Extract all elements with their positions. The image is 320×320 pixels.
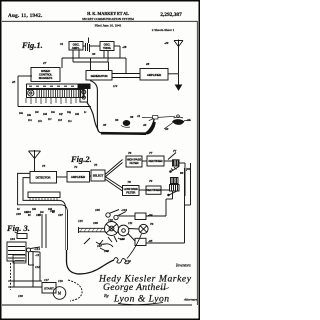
svg-text:-28: -28 (122, 45, 127, 49)
svg-text:108: 108 (104, 249, 109, 253)
svg-text:105: 105 (95, 208, 100, 212)
svg-text:30: 30 (91, 52, 96, 56)
svg-text:-29: -29 (164, 41, 169, 45)
svg-text:2 Sheets-Sheet 1: 2 Sheets-Sheet 1 (152, 28, 175, 32)
svg-text:103: 103 (16, 212, 21, 216)
svg-text:76: 76 (150, 222, 154, 226)
svg-text:Aug. 11, 1942.: Aug. 11, 1942. (8, 13, 43, 19)
svg-text:27: 27 (42, 61, 47, 65)
svg-text:Inventors: Inventors (175, 264, 191, 268)
svg-text:80: 80 (180, 171, 184, 175)
svg-text:79: 79 (149, 179, 153, 183)
svg-text:AMPLIFIER: AMPLIFIER (71, 175, 86, 179)
svg-text:106: 106 (50, 209, 55, 213)
svg-text:73: 73 (42, 164, 46, 168)
svg-text:1/4: 1/4 (113, 84, 118, 88)
svg-text:AMPLIFIER: AMPLIFIER (147, 73, 162, 77)
svg-text:35: 35 (102, 123, 107, 127)
svg-text:-85: -85 (148, 239, 153, 243)
svg-text:107: 107 (97, 244, 102, 248)
svg-text:Fig. 3.: Fig. 3. (6, 223, 30, 233)
svg-text:START: START (44, 287, 54, 291)
svg-text:77: 77 (173, 149, 177, 153)
svg-text:By: By (104, 293, 109, 298)
svg-text:RECTIFIER: RECTIFIER (147, 188, 162, 192)
svg-text:H. K. MARKEY ET AL: H. K. MARKEY ET AL (87, 11, 129, 16)
svg-text:2,292,387: 2,292,387 (160, 12, 182, 18)
svg-text:25: 25 (11, 80, 16, 84)
svg-text:117: 117 (44, 278, 49, 282)
svg-text:Attorneys: Attorneys (183, 298, 198, 302)
svg-text:110: 110 (108, 218, 113, 222)
svg-text:-37: -37 (186, 118, 191, 122)
svg-text:Fig.1.: Fig.1. (21, 40, 43, 50)
svg-text:40: 40 (164, 127, 169, 131)
svg-text:119: 119 (58, 279, 63, 283)
svg-text:76: 76 (128, 151, 132, 155)
svg-text:105: 105 (36, 213, 41, 217)
svg-text:-114: -114 (34, 247, 40, 251)
svg-text:77: 77 (149, 151, 153, 155)
svg-text:104: 104 (10, 237, 15, 241)
svg-text:Fig.2.: Fig.2. (70, 154, 92, 164)
svg-text:74: 74 (74, 165, 78, 169)
svg-text:FILTER: FILTER (126, 191, 136, 195)
svg-text:107: 107 (58, 213, 63, 217)
svg-text:36: 36 (114, 118, 119, 122)
svg-text:115: 115 (78, 219, 83, 223)
svg-text:SELECT: SELECT (93, 174, 104, 178)
svg-text:40: 40 (142, 123, 147, 127)
svg-text:FILTER: FILTER (129, 161, 139, 165)
svg-text:38: 38 (129, 115, 134, 119)
svg-text:GENERATOR: GENERATOR (91, 74, 109, 78)
svg-text:28: 28 (145, 62, 150, 66)
svg-text:SECRET COMMUNICATION SYSTEM: SECRET COMMUNICATION SYSTEM (82, 17, 134, 21)
svg-text:113: 113 (120, 237, 125, 241)
svg-text:118: 118 (18, 294, 23, 298)
svg-text:41: 41 (136, 114, 141, 118)
svg-text:111: 111 (128, 221, 133, 225)
svg-text:109: 109 (93, 221, 98, 225)
svg-text:RECTIFIER: RECTIFIER (149, 159, 164, 163)
svg-text:78: 78 (128, 180, 132, 184)
svg-text:George Antheil: George Antheil (103, 282, 166, 293)
svg-text:104: 104 (26, 210, 31, 214)
svg-text:10h: 10h (75, 113, 80, 116)
svg-text:AMPL.: AMPL. (72, 46, 81, 50)
svg-text:112: 112 (35, 265, 40, 269)
svg-text:-84: -84 (148, 213, 153, 217)
svg-text:75: 75 (94, 163, 98, 167)
svg-text:-104: -104 (121, 208, 127, 212)
svg-text:-11: -11 (35, 253, 40, 257)
svg-text:116: 116 (126, 259, 131, 263)
svg-text:TRNS.: TRNS. (103, 46, 112, 50)
svg-text:MAGNETS: MAGNETS (39, 76, 53, 80)
svg-text:DETECTOR: DETECTOR (36, 176, 52, 180)
svg-text:31: 31 (59, 42, 64, 46)
